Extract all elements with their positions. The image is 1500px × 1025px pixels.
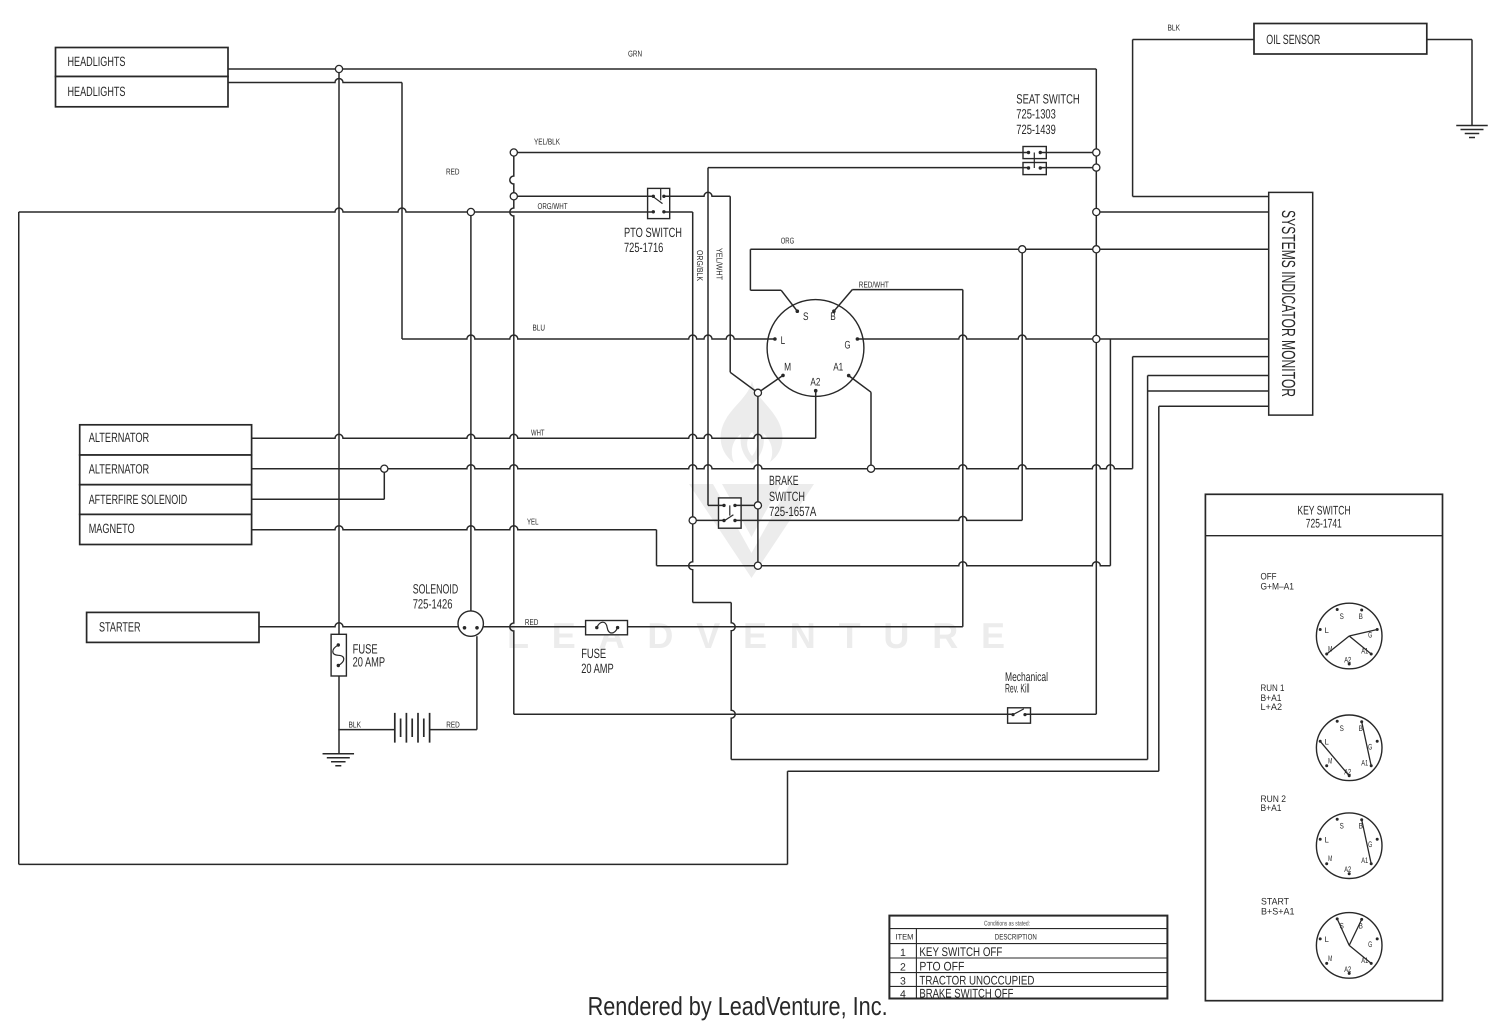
- svg-text:A1: A1: [833, 362, 843, 374]
- svg-text:ALTERNATOR: ALTERNATOR: [89, 462, 150, 477]
- svg-text:A1: A1: [1361, 647, 1368, 656]
- svg-text:ORG: ORG: [781, 236, 795, 246]
- svg-text:M: M: [784, 362, 791, 374]
- svg-text:MAGNETO: MAGNETO: [89, 521, 135, 536]
- svg-text:725-1439: 725-1439: [1016, 122, 1056, 137]
- svg-text:BLK: BLK: [349, 720, 362, 730]
- svg-text:L: L: [1325, 738, 1330, 747]
- svg-text:B: B: [1359, 921, 1363, 930]
- svg-text:L+A2: L+A2: [1261, 702, 1283, 713]
- svg-text:BLU: BLU: [533, 323, 546, 333]
- svg-text:YEL: YEL: [527, 516, 539, 526]
- svg-text:SWITCH: SWITCH: [769, 489, 805, 504]
- svg-text:YEL/BLK: YEL/BLK: [534, 136, 560, 146]
- svg-text:ALTERNATOR: ALTERNATOR: [89, 430, 150, 445]
- svg-text:RED: RED: [525, 617, 539, 627]
- svg-text:S: S: [803, 311, 809, 323]
- svg-text:DESCRIPTION: DESCRIPTION: [995, 932, 1037, 941]
- svg-text:G: G: [1368, 631, 1372, 640]
- svg-text:G+M–A1: G+M–A1: [1261, 582, 1295, 593]
- svg-text:M: M: [1328, 954, 1332, 963]
- svg-text:HEADLIGHTS: HEADLIGHTS: [68, 54, 126, 69]
- svg-text:ORG/BLK: ORG/BLK: [695, 250, 705, 281]
- svg-text:S: S: [1340, 612, 1344, 621]
- svg-text:OIL SENSOR: OIL SENSOR: [1266, 32, 1320, 47]
- svg-text:AFTERFIRE SOLENOID: AFTERFIRE SOLENOID: [89, 492, 188, 507]
- svg-text:B+A1: B+A1: [1261, 803, 1282, 814]
- svg-text:L: L: [1325, 935, 1330, 944]
- svg-text:B+S+A1: B+S+A1: [1261, 907, 1295, 918]
- svg-text:A2: A2: [810, 377, 820, 389]
- svg-text:B: B: [830, 311, 836, 323]
- svg-text:S: S: [1340, 724, 1344, 733]
- svg-text:WHT: WHT: [531, 427, 545, 437]
- svg-text:GRN: GRN: [628, 49, 642, 59]
- svg-text:FUSE: FUSE: [581, 646, 606, 661]
- svg-text:ITEM: ITEM: [895, 932, 913, 941]
- svg-text:ORG/WHT: ORG/WHT: [538, 201, 568, 211]
- svg-text:L: L: [1325, 836, 1330, 845]
- svg-text:PTO OFF: PTO OFF: [919, 959, 964, 973]
- svg-text:A1: A1: [1361, 956, 1368, 965]
- svg-text:M: M: [1328, 756, 1332, 765]
- svg-text:RED/WHT: RED/WHT: [859, 280, 889, 290]
- svg-text:20 AMP: 20 AMP: [353, 655, 386, 670]
- svg-text:PTO SWITCH: PTO SWITCH: [624, 225, 682, 240]
- svg-text:A2: A2: [1344, 865, 1351, 874]
- svg-text:G: G: [845, 339, 851, 351]
- svg-text:725-1741: 725-1741: [1306, 516, 1342, 530]
- svg-text:725-1426: 725-1426: [413, 597, 453, 612]
- svg-text:G: G: [1368, 940, 1372, 949]
- svg-text:KEY SWITCH OFF: KEY SWITCH OFF: [919, 945, 1002, 959]
- svg-text:20 AMP: 20 AMP: [581, 661, 614, 676]
- svg-text:SEAT SWITCH: SEAT SWITCH: [1016, 91, 1079, 106]
- svg-text:725-1303: 725-1303: [1016, 106, 1056, 121]
- svg-text:L: L: [1325, 626, 1330, 635]
- svg-text:Rev. Kill: Rev. Kill: [1005, 681, 1030, 695]
- svg-text:RED: RED: [446, 720, 460, 730]
- svg-text:B: B: [1359, 822, 1363, 831]
- svg-text:BLK: BLK: [1168, 23, 1181, 33]
- svg-text:SYSTEMS INDICATOR MONITOR: SYSTEMS INDICATOR MONITOR: [1277, 210, 1298, 397]
- svg-text:G: G: [1368, 840, 1372, 849]
- svg-text:RED: RED: [446, 166, 460, 176]
- svg-text:Rendered by LeadVenture, Inc.: Rendered by LeadVenture, Inc.: [588, 991, 888, 1021]
- svg-text:Conditions as stated:: Conditions as stated:: [984, 921, 1030, 928]
- svg-text:725-1657A: 725-1657A: [769, 504, 816, 519]
- svg-text:BRAKE: BRAKE: [769, 473, 799, 488]
- svg-text:725-1716: 725-1716: [624, 240, 663, 255]
- svg-text:A2: A2: [1344, 767, 1351, 776]
- svg-text:YEL/WHT: YEL/WHT: [715, 248, 725, 280]
- svg-text:A2: A2: [1344, 656, 1351, 665]
- svg-text:A1: A1: [1361, 856, 1368, 865]
- svg-text:BRAKE SWITCH OFF: BRAKE SWITCH OFF: [919, 986, 1013, 1000]
- svg-text:HEADLIGHTS: HEADLIGHTS: [68, 84, 126, 99]
- svg-text:B: B: [1359, 724, 1363, 733]
- svg-text:M: M: [1328, 854, 1332, 863]
- svg-text:B: B: [1359, 612, 1363, 621]
- svg-text:3: 3: [900, 976, 906, 988]
- svg-text:SOLENOID: SOLENOID: [413, 581, 459, 596]
- svg-text:G: G: [1368, 742, 1372, 751]
- svg-text:STARTER: STARTER: [99, 619, 141, 634]
- svg-text:A1: A1: [1361, 758, 1368, 767]
- svg-text:M: M: [1328, 645, 1332, 654]
- svg-text:2: 2: [900, 961, 906, 973]
- svg-text:A2: A2: [1344, 965, 1351, 974]
- svg-text:S: S: [1340, 822, 1344, 831]
- svg-text:4: 4: [900, 988, 906, 1000]
- svg-text:1: 1: [900, 947, 906, 959]
- svg-text:L: L: [781, 335, 786, 347]
- svg-text:S: S: [1340, 921, 1344, 930]
- svg-text:TRACTOR UNOCCUPIED: TRACTOR UNOCCUPIED: [919, 974, 1034, 988]
